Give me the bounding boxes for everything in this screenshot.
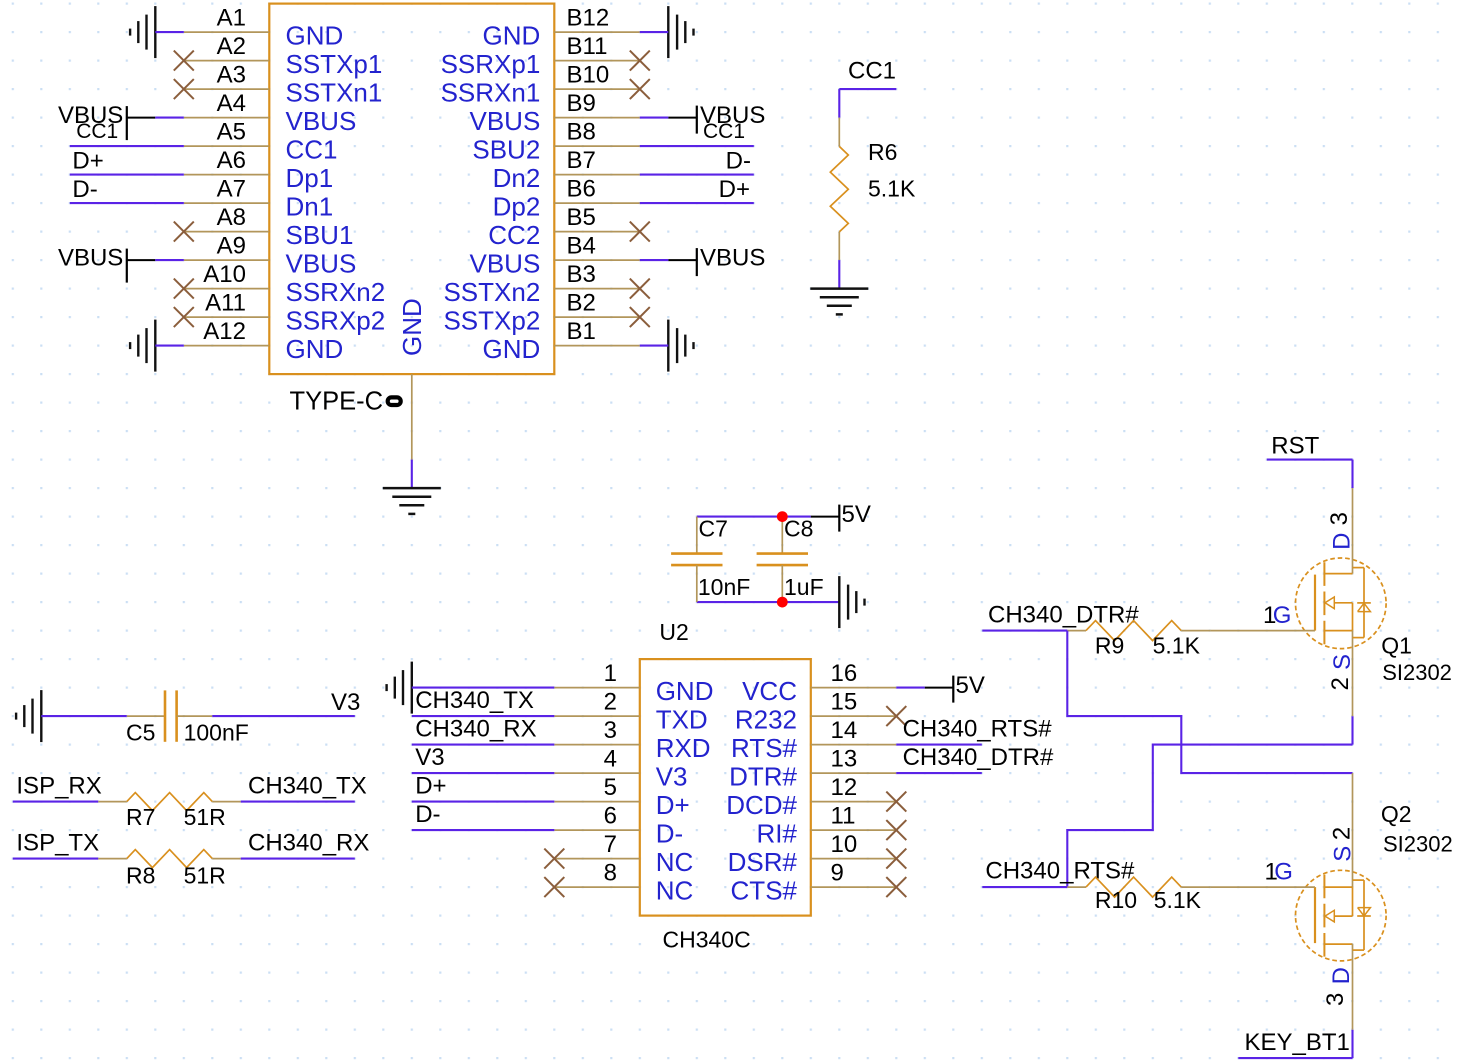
pin 1 GND of U2 <box>554 660 713 706</box>
net label RST <box>1271 432 1319 459</box>
svg-text:A10: A10 <box>203 261 246 288</box>
pin A6 Dp1 of TYPE-C <box>184 147 333 193</box>
svg-text:R9: R9 <box>1095 633 1124 659</box>
pin A3 SSTXn1 of TYPE-C <box>184 62 383 108</box>
wire B9 to VBUS <box>640 117 669 119</box>
net label CH340_RX at U2 pin3 <box>415 716 536 743</box>
pin B11 SSRXp1 of TYPE-C <box>441 33 640 79</box>
pin 11 RI# of U2 <box>757 803 897 849</box>
pin B5 CC2 of TYPE-C <box>488 204 640 250</box>
svg-text:1uF: 1uF <box>784 574 824 600</box>
svg-text:VBUS: VBUS <box>469 248 540 278</box>
no-connect X on U2 pin 10 <box>886 849 906 869</box>
svg-text:SSTXn1: SSTXn1 <box>286 77 383 107</box>
wire D- to U2 pin6 <box>412 829 555 831</box>
pin 1 G label of Q1 <box>1263 602 1291 629</box>
net label ISP_RX <box>16 773 101 800</box>
svg-text:S: S <box>1329 654 1356 670</box>
pin A2 SSTXp1 of TYPE-C <box>184 33 383 79</box>
svg-text:SBU1: SBU1 <box>286 220 354 250</box>
wire CC1 to A5 <box>70 145 184 147</box>
svg-text:SSTXp2: SSTXp2 <box>443 305 540 335</box>
svg-text:A12: A12 <box>203 318 246 345</box>
resistor R8 51R <box>98 850 241 889</box>
wire CH340_RTS# to R10 <box>982 886 1067 888</box>
svg-text:3: 3 <box>604 717 617 744</box>
wire R10 to Q2 gate <box>1211 886 1315 888</box>
pin 14 RTS# of U2 <box>731 717 896 763</box>
svg-text:DSR#: DSR# <box>728 847 798 877</box>
wire TYPE-C GND pin to ground <box>411 460 413 489</box>
wire CH340_RTS# at U2 pin14 <box>896 744 982 746</box>
svg-text:ISP_TX: ISP_TX <box>16 830 99 857</box>
svg-text:R7: R7 <box>126 804 155 830</box>
power flag VBUS at B4 <box>668 245 765 277</box>
ground at C5 <box>16 690 41 742</box>
wire Q1 source to Q2 gate net <box>1067 745 1352 888</box>
pin 6 D- of U2 <box>554 803 683 849</box>
net label D+ at B6 <box>719 176 750 203</box>
pin 2 S label of Q2 <box>1329 827 1357 862</box>
svg-text:CH340C: CH340C <box>663 926 751 952</box>
svg-text:CH340_RX: CH340_RX <box>248 830 369 857</box>
wire Q2 drain to KEY_BT1 <box>1351 1030 1353 1058</box>
no-connect X on U2 pin 12 <box>886 792 906 812</box>
svg-text:C5: C5 <box>126 719 155 745</box>
svg-text:100nF: 100nF <box>184 719 249 745</box>
wire ISP_TX to R8 <box>13 858 99 860</box>
pin B12 GND of TYPE-C <box>483 5 640 51</box>
net label D+ at A6 <box>72 147 103 174</box>
wire A1 to ground <box>155 31 184 33</box>
svg-text:CC1: CC1 <box>703 120 745 143</box>
no-connect X on B5 <box>630 222 650 242</box>
svg-text:D-: D- <box>415 801 440 828</box>
svg-text:D+: D+ <box>415 773 446 800</box>
wire RST to Q1 drain <box>1351 460 1353 489</box>
net label CH340_RTS# at R10 <box>985 858 1135 885</box>
svg-text:R232: R232 <box>735 704 797 734</box>
pin A12 GND of TYPE-C <box>184 318 343 364</box>
svg-text:2: 2 <box>604 689 617 716</box>
no-connect X on A8 <box>174 222 194 242</box>
svg-text:DCD#: DCD# <box>726 790 797 820</box>
pin A8 SBU1 of TYPE-C <box>184 204 354 250</box>
svg-text:2: 2 <box>1329 827 1356 840</box>
pin 3 D label of Q1 <box>1326 512 1356 550</box>
svg-text:A5: A5 <box>217 119 246 146</box>
svg-text:14: 14 <box>831 717 858 744</box>
svg-text:4: 4 <box>604 746 617 773</box>
pin 2 TXD of U2 <box>554 689 707 735</box>
svg-text:TXD: TXD <box>656 704 708 734</box>
wire B7 D- <box>640 174 754 176</box>
svg-text:GND: GND <box>286 334 344 364</box>
pin 3 RXD of U2 <box>554 717 710 763</box>
wire B4 to VBUS <box>640 259 669 261</box>
svg-text:A11: A11 <box>205 290 246 317</box>
svg-text:Dn1: Dn1 <box>286 191 334 221</box>
wire CH340_RX to U2 pin3 <box>412 744 555 746</box>
svg-text:A2: A2 <box>217 33 246 60</box>
pin A4 VBUS of TYPE-C <box>184 90 357 136</box>
ground at B12 <box>668 6 693 58</box>
wire U2 pin1 to ground <box>412 687 555 689</box>
net label KEY_BT1 <box>1245 1029 1350 1056</box>
svg-text:A8: A8 <box>217 204 246 231</box>
svg-text:D+: D+ <box>72 147 103 174</box>
wire ground to C5 <box>41 715 127 717</box>
no-connect X on U2 pin 9 <box>886 877 906 897</box>
junction top of C8 <box>777 511 788 522</box>
pin 12 DCD# of U2 <box>726 774 896 820</box>
svg-text:6: 6 <box>604 803 617 830</box>
wire B6 D+ <box>640 202 754 204</box>
ground at B1 <box>668 320 693 372</box>
net label D+ at U2 pin5 <box>415 773 446 800</box>
value SI2302 of Q1 <box>1382 660 1452 685</box>
ground below TYPE-C <box>383 488 441 514</box>
wire R8 to CH340_RX <box>241 858 355 860</box>
wire CH340_DTR# at U2 pin13 <box>896 772 982 774</box>
wire D+ to U2 pin5 <box>412 801 555 803</box>
wire R9 to Q1 gate <box>1211 630 1315 632</box>
net label CH340_DTR# at R9 <box>988 602 1139 629</box>
pin 1 G label of Q2 <box>1265 859 1293 886</box>
pin A1 GND of TYPE-C <box>184 5 343 51</box>
wire D+ to A6 <box>70 174 184 176</box>
svg-text:RXD: RXD <box>656 733 711 763</box>
net label D- at B7 <box>726 147 751 174</box>
capacitor C5 100nF <box>126 690 249 745</box>
resistor R6 5.1K <box>830 118 916 261</box>
svg-text:KEY_BT1: KEY_BT1 <box>1245 1029 1350 1056</box>
power flag 5V at C8 rail <box>811 501 871 532</box>
svg-text:16: 16 <box>831 660 858 687</box>
svg-text:R6: R6 <box>868 139 897 165</box>
svg-text:B10: B10 <box>567 62 610 89</box>
svg-text:51R: 51R <box>184 862 226 888</box>
svg-text:1: 1 <box>604 660 617 687</box>
pin B7 Dn2 of TYPE-C <box>493 147 640 193</box>
svg-text:CH340_DTR#: CH340_DTR# <box>903 744 1054 771</box>
wire CC1 down to R6 <box>838 89 840 118</box>
net label CC1 at A5 <box>76 120 118 143</box>
svg-text:SSRXn2: SSRXn2 <box>286 277 386 307</box>
IC U2 body <box>640 659 811 916</box>
net label D- at A7 <box>72 176 97 203</box>
transistor Q1 SI2302 symbol <box>1296 488 1387 716</box>
svg-text:Dp1: Dp1 <box>286 163 334 193</box>
pin 13 DTR# of U2 <box>729 746 896 792</box>
svg-text:NC: NC <box>656 847 694 877</box>
svg-text:VBUS: VBUS <box>286 248 357 278</box>
svg-text:B9: B9 <box>567 90 596 117</box>
svg-text:Q1: Q1 <box>1381 633 1412 659</box>
svg-text:5.1K: 5.1K <box>868 176 916 202</box>
svg-text:B1: B1 <box>567 318 596 345</box>
capacitor C7 10nF <box>671 516 750 603</box>
svg-text:CH340_RTS#: CH340_RTS# <box>903 716 1053 743</box>
svg-text:R8: R8 <box>126 862 155 888</box>
wire VBUS to A9 <box>155 259 184 261</box>
svg-text:10: 10 <box>831 831 858 858</box>
svg-text:9: 9 <box>831 860 844 887</box>
svg-text:11: 11 <box>831 803 856 830</box>
svg-text:D: D <box>1328 967 1355 984</box>
ground at U2 pin 1 <box>387 662 412 714</box>
pin B9 VBUS of TYPE-C <box>469 90 639 136</box>
no-connect X on A11 <box>174 307 194 327</box>
svg-text:B8: B8 <box>567 119 596 146</box>
svg-text:5V: 5V <box>956 672 985 699</box>
wire RST <box>1267 459 1353 461</box>
no-connect X on U2 pin 7 <box>544 849 564 869</box>
net label CH340_TX at R7 <box>248 773 367 800</box>
wire R6 to ground <box>838 260 840 289</box>
wire 5V rail top <box>697 516 811 518</box>
pin 7 NC of U2 <box>554 831 693 877</box>
svg-text:VBUS: VBUS <box>286 106 357 136</box>
power flag VBUS at A9 <box>58 245 155 283</box>
svg-text:CC1: CC1 <box>286 134 338 164</box>
svg-text:VBUS: VBUS <box>58 245 123 272</box>
net label CC1 at B8 <box>703 120 745 143</box>
no-connect X on U2 pin 11 <box>886 820 906 840</box>
designator U2 <box>659 619 688 645</box>
svg-text:B3: B3 <box>567 261 596 288</box>
svg-text:Dp2: Dp2 <box>493 191 541 221</box>
svg-text:VBUS: VBUS <box>469 106 540 136</box>
pin 3 D label of Q2 <box>1322 967 1355 1006</box>
wire V3 to U2 pin4 <box>412 772 555 774</box>
svg-text:TYPE-C: TYPE-C <box>290 387 384 415</box>
svg-text:A6: A6 <box>217 147 246 174</box>
svg-text:5.1K: 5.1K <box>1154 887 1202 913</box>
svg-text:13: 13 <box>831 746 858 773</box>
wire C5 to V3 <box>212 715 354 717</box>
svg-text:C7: C7 <box>699 516 728 542</box>
pin 8 NC of U2 <box>554 860 693 906</box>
pin 16 VCC of U2 <box>742 660 896 706</box>
net label ISP_TX <box>16 830 99 857</box>
pin 9 CTS# of U2 <box>731 860 897 906</box>
wire B12 to ground <box>640 31 669 33</box>
wire Q1 source down <box>1351 716 1353 744</box>
svg-text:5: 5 <box>604 774 617 801</box>
pin 15 R232 of U2 <box>735 689 896 735</box>
svg-text:RI#: RI# <box>757 818 798 848</box>
pin A7 Dn1 of TYPE-C <box>184 176 333 222</box>
net label CH340_DTR# at U2 pin13 <box>903 744 1054 771</box>
pin B1 GND of TYPE-C <box>483 318 640 364</box>
wire D- to A7 <box>70 202 184 204</box>
no-connect X on B2 <box>630 307 650 327</box>
svg-text:U2: U2 <box>659 619 688 645</box>
svg-text:12: 12 <box>831 774 858 801</box>
svg-text:CC1: CC1 <box>848 58 896 85</box>
net label CH340_TX at U2 pin2 <box>415 687 534 714</box>
svg-text:VBUS: VBUS <box>700 245 765 272</box>
value CH340C <box>663 926 751 952</box>
svg-text:3: 3 <box>1326 512 1353 525</box>
pin 10 DSR# of U2 <box>728 831 897 877</box>
wire B1 to ground <box>640 345 669 347</box>
svg-text:B11: B11 <box>567 33 608 60</box>
svg-text:A4: A4 <box>217 90 246 117</box>
svg-text:CH340_TX: CH340_TX <box>415 687 534 714</box>
svg-text:SI2302: SI2302 <box>1383 832 1453 857</box>
no-connect X on U2 pin 15 <box>886 706 906 726</box>
svg-text:5V: 5V <box>842 501 871 528</box>
svg-text:3: 3 <box>1322 993 1349 1006</box>
svg-text:SSTXp1: SSTXp1 <box>286 49 383 79</box>
svg-text:A1: A1 <box>217 5 246 32</box>
no-connect X on B10 <box>630 79 650 99</box>
svg-text:S: S <box>1330 846 1357 862</box>
svg-text:A3: A3 <box>217 62 246 89</box>
svg-text:D-: D- <box>656 818 683 848</box>
svg-text:B2: B2 <box>567 290 596 317</box>
svg-text:D: D <box>1329 533 1356 550</box>
no-connect X on B11 <box>630 51 650 71</box>
svg-text:SSRXn1: SSRXn1 <box>441 77 541 107</box>
svg-text:5.1K: 5.1K <box>1153 633 1201 659</box>
pin 2 S label of Q1 <box>1327 654 1356 691</box>
svg-text:CH340_TX: CH340_TX <box>248 773 367 800</box>
svg-text:DTR#: DTR# <box>729 761 797 791</box>
svg-text:10nF: 10nF <box>698 574 750 600</box>
pin 4 V3 of U2 <box>554 746 687 792</box>
svg-text:RTS#: RTS# <box>731 733 798 763</box>
ground below R6 <box>810 289 868 315</box>
wire ground rail bottom <box>697 601 840 603</box>
wire ISP_RX to R7 <box>13 801 99 803</box>
net label CH340_RTS# at U2 pin14 <box>903 716 1053 743</box>
svg-text:CH340_DTR#: CH340_DTR# <box>988 602 1139 629</box>
net label V3 at C5 <box>331 689 360 716</box>
no-connect X on B3 <box>630 279 650 299</box>
svg-text:SBU2: SBU2 <box>472 134 540 164</box>
svg-text:7: 7 <box>604 831 617 858</box>
designator Q2 <box>1381 801 1412 827</box>
svg-text:8: 8 <box>604 860 617 887</box>
pin B6 Dp2 of TYPE-C <box>493 176 640 222</box>
svg-text:B4: B4 <box>567 233 596 260</box>
resistor R7 51R <box>98 793 241 830</box>
wire VBUS to A4 <box>155 117 184 119</box>
no-connect X on A3 <box>174 79 194 99</box>
wire CC1 stub at R6 <box>839 88 896 90</box>
net label CH340_RX at R8 <box>248 830 369 857</box>
capacitor C8 1uF <box>757 516 824 603</box>
svg-text:D+: D+ <box>656 790 690 820</box>
no-connect X on U2 pin 8 <box>544 877 564 897</box>
ground at A1 <box>130 6 155 58</box>
svg-text:ISP_RX: ISP_RX <box>16 773 101 800</box>
net label D- at U2 pin6 <box>415 801 440 828</box>
wire U2 pin16 to 5V <box>896 687 925 689</box>
svg-text:Q2: Q2 <box>1381 801 1412 827</box>
svg-text:G: G <box>1274 859 1293 886</box>
svg-text:CH340_RTS#: CH340_RTS# <box>985 858 1135 885</box>
svg-text:B6: B6 <box>567 176 596 203</box>
wire DTR junction to Q2 source net <box>1067 631 1352 774</box>
svg-text:SSRXp1: SSRXp1 <box>441 49 541 79</box>
wire KEY_BT1 <box>1238 1057 1352 1059</box>
transistor Q2 SI2302 symbol <box>1296 773 1387 1030</box>
power flag 5V at U2 pin16 <box>925 672 985 703</box>
svg-text:G: G <box>1273 602 1292 629</box>
pin 5 D+ of U2 <box>554 774 689 820</box>
pin B8 SBU2 of TYPE-C <box>472 119 639 165</box>
svg-text:D+: D+ <box>719 176 750 203</box>
net label V3 at U2 pin4 <box>415 744 444 771</box>
junction bottom of C8 <box>777 597 788 608</box>
value SI2302 of Q2 <box>1383 832 1453 857</box>
svg-text:2: 2 <box>1327 677 1354 690</box>
wire CH340_DTR# to R9 <box>982 630 1067 632</box>
svg-text:GND: GND <box>656 676 714 706</box>
svg-text:B12: B12 <box>567 5 610 32</box>
svg-text:SI2302: SI2302 <box>1382 660 1452 685</box>
svg-text:CC2: CC2 <box>488 220 540 250</box>
pin A5 CC1 of TYPE-C <box>184 119 338 165</box>
wire CH340_TX to U2 pin2 <box>412 715 555 717</box>
svg-text:CC1: CC1 <box>76 120 118 143</box>
svg-text:15: 15 <box>831 689 858 716</box>
svg-text:Dn2: Dn2 <box>493 163 541 193</box>
wire A12 to ground <box>155 345 184 347</box>
svg-text:C8: C8 <box>784 516 813 542</box>
pin A9 VBUS of TYPE-C <box>184 233 357 279</box>
pin B4 VBUS of TYPE-C <box>469 233 639 279</box>
svg-text:D-: D- <box>726 147 751 174</box>
ground at C8 rail <box>839 576 864 628</box>
connector TYPE-C body <box>269 4 554 375</box>
svg-text:A9: A9 <box>217 233 246 260</box>
svg-text:GND: GND <box>483 334 541 364</box>
net label CC1 at R6 <box>848 58 896 85</box>
svg-text:V3: V3 <box>415 744 444 771</box>
svg-text:SSTXn2: SSTXn2 <box>443 277 540 307</box>
svg-text:B7: B7 <box>567 147 596 174</box>
svg-text:A7: A7 <box>217 176 246 203</box>
resistor R10 5.1K <box>1067 877 1210 913</box>
svg-text:GND: GND <box>483 20 541 50</box>
designator Q1 <box>1381 633 1412 659</box>
svg-text:GND: GND <box>286 20 344 50</box>
pin 0 GND of TYPE-C (bottom) <box>397 298 427 459</box>
resistor R9 5.1K <box>1067 621 1210 659</box>
svg-text:SSRXp2: SSRXp2 <box>286 305 386 335</box>
designator label TYPE-C 0 <box>290 387 401 415</box>
no-connect X on A10 <box>174 279 194 299</box>
svg-text:VCC: VCC <box>742 676 797 706</box>
ground at A12 <box>130 320 155 372</box>
svg-text:R10: R10 <box>1095 887 1137 913</box>
svg-text:D-: D- <box>72 176 97 203</box>
svg-text:51R: 51R <box>184 804 226 830</box>
pin B10 SSRXn1 of TYPE-C <box>441 62 640 108</box>
pin B2 SSTXp2 of TYPE-C <box>443 290 639 336</box>
svg-text:V3: V3 <box>656 761 688 791</box>
wire B8 CC1 <box>640 145 754 147</box>
pin A11 SSRXp2 of TYPE-C <box>184 290 385 336</box>
svg-text:NC: NC <box>656 875 694 905</box>
wire R7 to CH340_TX <box>241 801 355 803</box>
svg-text:RST: RST <box>1271 432 1319 459</box>
